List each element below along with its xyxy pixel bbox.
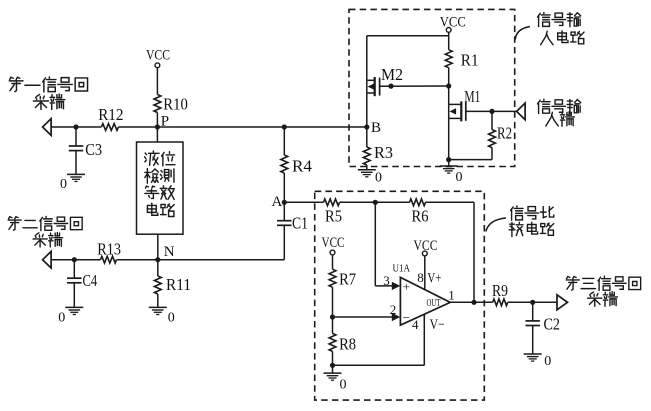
ground under M1 <box>440 166 463 185</box>
svg-text:VCC: VCC <box>322 235 345 251</box>
svg-text:M2: M2 <box>381 65 403 84</box>
svg-text:R5: R5 <box>325 206 342 225</box>
svg-text:0: 0 <box>375 171 382 186</box>
power VCC input box <box>440 15 466 33</box>
junction R5-R6 <box>373 200 378 205</box>
resistor R2 <box>489 123 512 147</box>
terminal 第一信号回采端 <box>9 77 87 135</box>
ground under C2 <box>524 354 552 369</box>
svg-text:R6: R6 <box>412 206 429 225</box>
capacitor C2 <box>525 314 560 333</box>
resistor R8 <box>329 333 356 353</box>
resistor R11 <box>154 275 191 294</box>
svg-text:0: 0 <box>340 378 347 393</box>
capacitor C3 <box>69 140 102 159</box>
junction C4-rail <box>72 257 77 262</box>
svg-text:4: 4 <box>412 317 419 332</box>
power VCC R7 <box>322 235 345 255</box>
wire M1 source down <box>448 118 450 166</box>
svg-text:2: 2 <box>390 302 397 317</box>
node B <box>364 120 381 136</box>
svg-text:M1: M1 <box>464 87 480 106</box>
wire block to N <box>157 234 159 260</box>
wire P to block <box>156 127 158 142</box>
svg-text:−: − <box>403 310 410 325</box>
wire op-amp output <box>450 301 493 303</box>
wire R10 to P <box>156 113 158 128</box>
junction C3-rail <box>73 124 78 129</box>
resistor R13 <box>97 240 121 263</box>
junction R8-ground <box>330 363 335 368</box>
capacitor C4 <box>67 271 97 290</box>
junction R7-R8 <box>330 314 335 319</box>
wire R9 to terminal <box>508 301 557 303</box>
svg-text:0: 0 <box>456 170 463 185</box>
wire A to C1 <box>283 202 285 220</box>
wire N to R11 <box>157 260 159 276</box>
terminal 第三信号回采端 <box>557 276 641 310</box>
svg-text:0: 0 <box>58 311 65 326</box>
wire first signal rail P-B <box>51 126 367 128</box>
node A <box>272 194 287 210</box>
ground under R11 <box>149 307 175 325</box>
wire VCC to R7 <box>332 255 334 269</box>
power VCC top-left <box>146 48 170 68</box>
svg-text:R1: R1 <box>461 51 479 70</box>
wire C3 branch <box>75 127 77 174</box>
box 信号比较电路 dashed <box>315 191 485 400</box>
resistor R3 <box>363 143 393 165</box>
svg-text:V−: V− <box>430 317 445 333</box>
wire junction to pin2 <box>333 316 393 318</box>
pin 1 label <box>448 287 455 302</box>
svg-text:U1A: U1A <box>393 263 411 275</box>
label V+ <box>427 270 441 286</box>
power VCC op-amp <box>414 238 438 256</box>
terminal 第二信号回采端 <box>8 216 82 268</box>
svg-text:N: N <box>164 244 175 260</box>
wire pin3 branch <box>375 202 392 286</box>
svg-text:V+: V+ <box>427 270 441 286</box>
svg-text:3: 3 <box>383 273 390 288</box>
svg-text:R8: R8 <box>339 335 356 354</box>
pin 3 label <box>383 273 390 288</box>
junction M1 source R2 <box>446 157 451 162</box>
resistor R1 <box>445 50 478 70</box>
wire R6 to output node <box>426 202 475 302</box>
ground under C3 <box>60 174 85 192</box>
svg-text:R12: R12 <box>98 105 123 124</box>
block 液位检测等效电路 <box>137 142 184 234</box>
resistor R6 <box>410 199 429 225</box>
svg-text:R7: R7 <box>339 270 356 289</box>
wire M2 gate to R1 <box>380 85 449 87</box>
resistor R5 <box>324 199 343 225</box>
label V- <box>430 317 445 333</box>
junction R9-C2 <box>530 300 535 305</box>
svg-text:B: B <box>371 120 381 136</box>
wire second signal rail N <box>51 226 284 260</box>
ground under R3 <box>358 170 382 186</box>
wire M2 to B <box>366 93 368 127</box>
wire R7R8 junction down <box>332 317 334 333</box>
svg-text:A: A <box>272 194 283 210</box>
resistor R12 <box>98 105 123 131</box>
svg-text:VCC: VCC <box>414 238 438 254</box>
wire C4 branch <box>73 260 75 308</box>
junction R1-M1-gate <box>446 83 451 88</box>
resistor R9 <box>492 281 508 306</box>
svg-text:VCC: VCC <box>440 15 466 31</box>
svg-text:+: + <box>403 279 410 294</box>
svg-text:R11: R11 <box>166 275 191 294</box>
svg-text:0: 0 <box>168 311 175 326</box>
resistor R4 <box>281 155 312 176</box>
wire R7 to junction <box>332 287 334 317</box>
pin 2 label <box>390 302 397 317</box>
wire C2 branch <box>532 302 534 354</box>
svg-text:0: 0 <box>544 354 551 369</box>
svg-text:OUT: OUT <box>427 298 441 309</box>
svg-text:8: 8 <box>417 270 424 285</box>
wire pin8 V+ <box>424 256 426 290</box>
wire R4 to A <box>283 173 285 202</box>
wire R3 to ground <box>366 165 368 170</box>
transistor M2 <box>367 65 403 96</box>
wire B to R3 <box>366 127 368 147</box>
svg-text:C4: C4 <box>83 271 98 290</box>
capacitor C1 <box>277 214 308 233</box>
resistor R10 <box>154 94 188 113</box>
wire pin4 V- <box>423 314 425 321</box>
ground under C4 <box>58 307 83 325</box>
svg-text:C2: C2 <box>544 314 561 333</box>
wire R8 junction to pin4 <box>333 314 425 365</box>
wire VCC tee to M2 <box>367 32 449 80</box>
ground under R8 <box>324 373 347 392</box>
wire R1 to junction <box>448 68 450 86</box>
wire M1 gate to input terminal <box>466 110 516 112</box>
wire node A to R5 <box>284 201 323 203</box>
terminal 信号输入端 <box>517 99 581 126</box>
svg-text:R3: R3 <box>374 143 393 162</box>
svg-text:P: P <box>161 114 169 130</box>
label 信号输入电路 <box>515 12 584 44</box>
label 信号比较电路 <box>486 206 554 237</box>
op-amp U1A <box>392 263 450 326</box>
svg-text:C3: C3 <box>85 140 102 159</box>
wire VCC to R10 <box>156 68 158 95</box>
junction on M2 gate wire <box>388 84 393 89</box>
svg-text:R2: R2 <box>497 123 512 142</box>
svg-text:R9: R9 <box>492 281 508 300</box>
svg-text:VCC: VCC <box>146 48 170 64</box>
wire R5 to R6 <box>340 201 410 203</box>
svg-text:R4: R4 <box>292 157 312 176</box>
wire R2 branch <box>449 111 492 159</box>
wire rail to R4 <box>283 127 285 155</box>
svg-text:C1: C1 <box>292 214 308 233</box>
node N <box>155 244 175 262</box>
node P <box>155 114 169 130</box>
wire R8 to ground <box>332 351 334 373</box>
resistor R7 <box>329 269 356 289</box>
transistor M1 <box>449 87 481 121</box>
pin 4 label <box>412 317 419 332</box>
svg-text:R10: R10 <box>163 94 188 113</box>
junction output feedback <box>471 300 476 305</box>
svg-text:0: 0 <box>60 177 67 192</box>
svg-text:R13: R13 <box>97 240 121 259</box>
junction M1 gate R2 <box>489 109 494 114</box>
wire R1 junction to M1 <box>448 86 450 104</box>
junction R4-rail <box>282 124 287 129</box>
wire R11 to ground <box>157 294 159 307</box>
svg-text:1: 1 <box>448 287 455 302</box>
pin 8 label <box>417 270 424 285</box>
box 信号输入电路 dashed <box>349 9 515 166</box>
